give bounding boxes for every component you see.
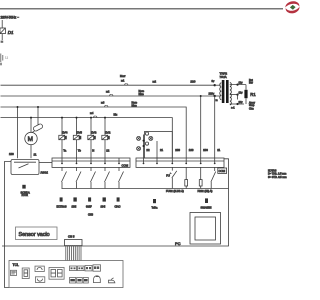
svg-text:220v: 220v xyxy=(209,91,215,95)
wire switch feed xyxy=(17,107,19,158)
contact K6 xyxy=(211,167,216,188)
svg-text:21: 21 xyxy=(160,148,164,152)
connector on L4 xyxy=(90,112,97,118)
svg-text:Sensor vacio: Sensor vacio xyxy=(19,232,50,238)
control panel box xyxy=(9,261,123,288)
svg-text:TaRa: TaRa xyxy=(152,207,158,210)
connector label CON1 xyxy=(218,168,227,173)
svg-text:COM: COM xyxy=(219,169,226,173)
svg-text:EV2: EV2 xyxy=(105,130,111,134)
svg-text:12v: 12v xyxy=(239,91,244,94)
solenoid valve EV2 xyxy=(102,117,111,159)
svg-text:200: 200 xyxy=(175,148,180,152)
svg-text:m4: m4 xyxy=(90,112,94,115)
lamp small lower xyxy=(145,142,148,145)
svg-text:TCL: TCL xyxy=(13,263,20,267)
svg-text:11: 11 xyxy=(217,148,220,152)
svg-text:m: m xyxy=(216,99,218,102)
display digit xyxy=(22,268,29,279)
svg-text:230V-50Hz ~: 230V-50Hz ~ xyxy=(1,16,20,20)
svg-text:EV5: EV5 xyxy=(76,130,82,134)
icon desague xyxy=(101,197,106,208)
wire lamp col xyxy=(156,141,158,158)
svg-text:FU32 (3LK3 A): FU32 (3LK3 A) xyxy=(166,189,184,193)
svg-text:m3: m3 xyxy=(101,101,105,104)
svg-text:104l: 104l xyxy=(101,206,106,209)
up button xyxy=(35,266,44,271)
terminal strip CON2 xyxy=(52,158,130,168)
svg-text:a-1: a-1 xyxy=(231,106,235,109)
wire xyxy=(1,34,3,40)
node mark xyxy=(1,41,4,43)
svg-text:CN 5: CN 5 xyxy=(68,234,75,238)
svg-text:70VA: 70VA xyxy=(220,75,227,79)
svg-text:Bar: Bar xyxy=(249,82,253,85)
transformer TRF2 xyxy=(220,80,231,105)
contact FU xyxy=(166,167,177,188)
fuse FU3 xyxy=(185,167,188,188)
svg-text:22: 22 xyxy=(146,148,150,152)
icon kettle xyxy=(94,276,101,283)
supply terminal marks xyxy=(0,54,8,66)
svg-text:CIAC: CIAC xyxy=(115,206,121,209)
supply wire xyxy=(1,20,3,28)
svg-text:Chn: Chn xyxy=(249,107,254,110)
bus line L4 xyxy=(1,118,173,158)
wire secondary mid xyxy=(230,94,238,96)
svg-text:Marr: Marr xyxy=(120,74,125,78)
icon aclarado xyxy=(86,197,92,208)
lamp crossed left lower xyxy=(137,147,141,151)
svg-text:220: 220 xyxy=(190,80,195,84)
wire primary bottom xyxy=(215,95,221,97)
indicator row marks xyxy=(71,266,100,269)
motor M1 xyxy=(25,132,37,144)
lamp crossed left xyxy=(137,136,141,140)
node on L2 at transformer xyxy=(214,95,216,97)
icon secundario xyxy=(201,198,212,209)
svg-text:m2: m2 xyxy=(106,90,110,93)
node on L1 at transformer xyxy=(214,84,216,86)
wire secondary top xyxy=(230,84,246,86)
svg-text:0v: 0v xyxy=(212,79,215,83)
sensor box xyxy=(16,227,58,240)
bus line L2 (neutral) xyxy=(1,95,215,97)
bus line L3 xyxy=(1,107,187,158)
ribbon cable xyxy=(66,246,81,261)
svg-text:100: 100 xyxy=(189,148,194,152)
wire L2 branch down (terminal 100) xyxy=(200,96,202,158)
icon electrovalvula xyxy=(57,197,67,208)
wire switch to strip xyxy=(39,162,52,164)
solenoid valve EV5 xyxy=(73,117,82,159)
svg-text:M: M xyxy=(28,136,33,143)
strip CON2 pins xyxy=(61,158,120,164)
connector on L3 xyxy=(101,101,108,107)
wire primary top xyxy=(215,84,221,86)
enclosure edge xyxy=(2,159,229,246)
svg-text:100: 100 xyxy=(9,152,14,156)
svg-text:N: N xyxy=(92,148,94,152)
filter D1 xyxy=(0,28,5,34)
capacitor C1 xyxy=(33,123,44,132)
relay contact K4 xyxy=(105,167,110,188)
wire from L2 end down (terminal 11) xyxy=(214,96,216,158)
wire motor to switch xyxy=(30,145,32,159)
down button xyxy=(35,277,44,283)
relay contact K2 xyxy=(76,167,81,188)
svg-text:EV3: EV3 xyxy=(91,130,97,134)
PC box xyxy=(175,213,221,247)
bottom rail wire xyxy=(62,188,229,190)
svg-text:Blue: Blue xyxy=(132,103,138,107)
svg-text:001F: 001F xyxy=(86,206,92,209)
svg-text:11: 11 xyxy=(34,153,37,157)
svg-text:COM: COM xyxy=(122,164,129,168)
solenoid valve EV3 xyxy=(88,117,97,159)
solenoid valve EV4 xyxy=(59,117,68,159)
prog button xyxy=(11,270,17,275)
svg-text:m2: m2 xyxy=(153,81,157,84)
relay contact K3 xyxy=(91,167,96,188)
relay contact K5 xyxy=(119,167,124,188)
logo S (red swirl with green center) xyxy=(285,1,299,13)
dual display xyxy=(49,268,64,280)
icon lavado xyxy=(72,197,77,208)
svg-text:Ta: Ta xyxy=(63,148,66,152)
program icon marks xyxy=(70,279,87,281)
svg-text:EXTRAS: EXTRAS xyxy=(57,206,67,209)
connector CN5 xyxy=(65,234,83,245)
wire capacitor feed xyxy=(37,107,39,125)
icon iron xyxy=(109,278,115,283)
top border line xyxy=(0,8,283,10)
lamp block xyxy=(143,132,173,159)
svg-text:EV4: EV4 xyxy=(62,130,68,134)
svg-text:24v: 24v xyxy=(239,101,244,104)
svg-text:F232 (15) A): F232 (15) A) xyxy=(198,189,213,193)
wire capacitor to motor xyxy=(32,131,35,133)
svg-text:12v: 12v xyxy=(239,81,244,84)
svg-text:R1: R1 xyxy=(250,92,256,97)
svg-text:CN3: CN3 xyxy=(88,213,94,216)
svg-text:Blue: Blue xyxy=(139,92,145,96)
icon ciclo xyxy=(115,197,121,208)
svg-text:12: 12 xyxy=(106,148,110,152)
svg-text:S02A0BN: S02A0BN xyxy=(201,207,212,210)
svg-text:D1: D1 xyxy=(8,30,14,35)
probe icon SONDA xyxy=(21,185,30,197)
indicator row xyxy=(70,265,101,271)
svg-text:RS01: RS01 xyxy=(41,171,49,175)
fuse F2 xyxy=(199,167,202,188)
svg-text:PC: PC xyxy=(175,241,181,246)
svg-text:100: 100 xyxy=(203,148,208,152)
svg-text:FU: FU xyxy=(166,173,170,177)
svg-text:S= STD. 0.5 mm: S= STD. 0.5 mm xyxy=(268,176,287,179)
svg-text:Tb: Tb xyxy=(78,148,82,152)
svg-text:m1: m1 xyxy=(121,80,125,83)
connector on L1 xyxy=(121,80,128,86)
svg-text:IVOR: IVOR xyxy=(22,193,28,197)
lamp crossed xyxy=(149,136,153,140)
wire motor feed xyxy=(30,118,32,133)
connector on L2 xyxy=(106,90,113,96)
door switch RS01 xyxy=(11,160,48,175)
svg-text:11: 11 xyxy=(5,56,8,60)
strip CON1 pins xyxy=(143,158,216,164)
bus line L1 xyxy=(1,84,215,86)
wire left drop xyxy=(5,162,12,288)
svg-text:Blu: Blu xyxy=(114,112,118,116)
lamp small xyxy=(145,132,148,135)
terminal strip CON1 xyxy=(136,158,224,167)
svg-text:130l: 130l xyxy=(72,206,77,209)
resistor R1 xyxy=(244,85,256,104)
program icons xyxy=(70,278,89,284)
icon tara xyxy=(152,199,158,210)
relay contact K1 xyxy=(62,167,67,188)
wire secondary bottom xyxy=(230,103,244,105)
